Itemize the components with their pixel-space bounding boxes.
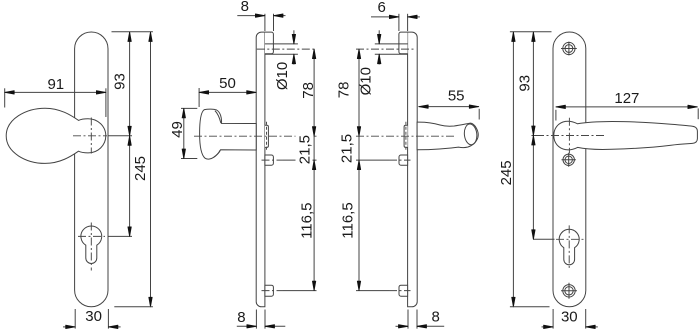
svg-text:116,5: 116,5 xyxy=(340,202,357,238)
euro profile cylinder hole C4 xyxy=(534,225,584,269)
top screw boss B3a side view xyxy=(356,32,416,54)
bottom screw S4c xyxy=(561,283,577,299)
dimension 55 (lever projection) xyxy=(419,88,480,120)
knob K2 side view (mushroom profile) xyxy=(200,109,257,159)
dimension 49 (knob height side view) xyxy=(169,108,198,158)
top screw boss B2a side view xyxy=(257,32,317,54)
dimension 6 (top, P3) xyxy=(371,0,420,31)
dimension 245 (plate length P4) xyxy=(498,32,515,307)
svg-text:91: 91 xyxy=(47,76,64,93)
svg-text:55: 55 xyxy=(448,88,465,105)
top screw S4a xyxy=(561,42,577,56)
chained dimensions 78 / 21,5 / 116,5 (P2) xyxy=(296,49,317,291)
extension line plate P4 bottom xyxy=(510,306,550,308)
svg-text:245: 245 xyxy=(132,156,149,181)
extension line lever L4 center xyxy=(532,135,537,137)
svg-text:93: 93 xyxy=(516,75,533,92)
knob K1 front view (egg shape with rose) xyxy=(6,108,106,163)
dimension diameter 10 (P3 screw hole) xyxy=(357,30,381,95)
backplate P3 side view (lever side) xyxy=(408,32,418,307)
euro profile cylinder hole C1 xyxy=(81,226,102,264)
dimension 30 (plate width P1) xyxy=(63,308,121,328)
backplate P4 front view (lever side) xyxy=(553,32,586,307)
dimension 93 (top to lever center P4) xyxy=(516,32,535,136)
svg-text:30: 30 xyxy=(561,308,578,325)
dimension 8 (bottom, P3) xyxy=(396,309,445,329)
svg-text:78: 78 xyxy=(336,82,353,99)
chained dimensions 78 / 21,5 / 116,5 (P3) xyxy=(336,49,361,291)
svg-text:127: 127 xyxy=(614,90,639,107)
bottom screw boss B2c side view xyxy=(262,285,317,296)
lever L4 front view xyxy=(554,121,698,150)
knob K2 center line xyxy=(194,135,317,137)
dimension 8 (top, P2) xyxy=(237,0,285,31)
dimension 245 (plate length P1) xyxy=(132,32,152,307)
center lines of knob K1 xyxy=(73,118,132,154)
dimension diameter 10 (P2 screw hole) xyxy=(274,30,295,90)
svg-text:49: 49 xyxy=(169,121,186,138)
unlabeled dimension knob center to cylinder center xyxy=(128,136,131,237)
svg-text:50: 50 xyxy=(219,75,236,92)
lever L3 side view xyxy=(417,122,478,150)
svg-text:Ø10: Ø10 xyxy=(357,67,374,95)
svg-text:6: 6 xyxy=(378,0,386,16)
bottom screw boss B3c side view xyxy=(356,285,411,296)
svg-text:116,5: 116,5 xyxy=(299,202,316,238)
svg-text:8: 8 xyxy=(237,309,245,326)
svg-text:30: 30 xyxy=(85,308,102,325)
center lines of lever L4 xyxy=(536,118,604,153)
dimension 30 (plate width P4) xyxy=(542,308,598,328)
dimension 127 (lever length) xyxy=(556,90,698,120)
dimension 91 (knob length) xyxy=(5,76,106,117)
spindle hub tab side view P2 xyxy=(265,122,269,151)
svg-text:8: 8 xyxy=(432,309,440,326)
svg-text:93: 93 xyxy=(111,73,128,90)
extension line plate P1 top xyxy=(112,31,153,33)
dimension 50 (knob projection) xyxy=(199,75,256,107)
middle screw boss B3b side view xyxy=(356,155,411,165)
svg-text:245: 245 xyxy=(498,160,515,185)
svg-text:Ø10: Ø10 xyxy=(274,62,291,90)
center lines of cylinder C1 xyxy=(78,223,132,271)
svg-text:8: 8 xyxy=(241,0,249,15)
backplate P1 front view (knob side) xyxy=(75,32,108,307)
unlabeled dimension lever center to cylinder center P4 xyxy=(532,136,535,240)
middle screw boss B2b side view xyxy=(262,155,317,165)
backplate P2 side view xyxy=(256,32,265,307)
dimension 8 (bottom, P2) xyxy=(237,309,285,329)
lever L3 center line xyxy=(356,135,456,137)
dimension 93 (top to knob center) xyxy=(111,32,131,136)
svg-text:78: 78 xyxy=(300,82,317,99)
extension line plate P1 bottom xyxy=(114,306,153,308)
middle screw S4b xyxy=(562,153,576,167)
svg-text:21,5: 21,5 xyxy=(338,134,355,163)
svg-text:21,5: 21,5 xyxy=(296,135,313,164)
extension line plate P4 top xyxy=(510,31,552,33)
spindle hub tab side view P3 xyxy=(404,122,408,151)
